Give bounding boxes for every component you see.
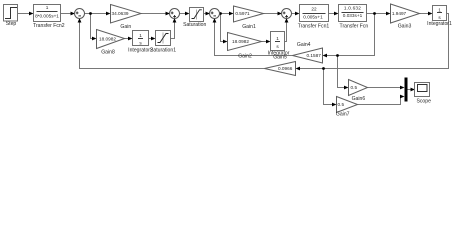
junction on Integrator1 feedback to Gain7 branch <box>322 67 325 70</box>
wire sum4 to tf1 <box>292 13 297 15</box>
svg-text:1.0.632: 1.0.632 <box>344 6 361 11</box>
transfer fcn block <box>339 5 369 30</box>
svg-text:Gain5: Gain5 <box>273 54 287 60</box>
arrowhead into Saturation1 <box>151 37 156 41</box>
svg-text:Integrator1: Integrator1 <box>427 21 452 27</box>
step block <box>4 5 18 28</box>
wire integrator2 to saturation1 <box>149 38 153 40</box>
svg-text:Gain2: Gain2 <box>238 53 252 59</box>
junction after Sum1 to Gain8 branch <box>89 12 92 15</box>
wire mux to scope <box>408 89 412 91</box>
arrowhead into Mux lower input <box>400 95 405 99</box>
sum3 <box>210 9 220 19</box>
svg-text:1.9497: 1.9497 <box>392 11 407 16</box>
gain block 34.0639 <box>111 5 142 31</box>
arrowhead into Gain <box>106 12 111 16</box>
integrator block <box>268 32 290 61</box>
wire gain to sum2 <box>141 13 167 15</box>
sum4 <box>282 9 292 19</box>
svg-text:18.0982: 18.0982 <box>232 39 249 44</box>
svg-text:Step: Step <box>6 21 17 27</box>
wire branch down to gain7 <box>324 69 334 105</box>
wire gain2 out to sum1 bottom <box>80 22 265 69</box>
gain7 block 0.5 <box>336 97 358 118</box>
svg-text:22: 22 <box>311 7 317 12</box>
integrator1 block <box>427 6 452 28</box>
wire saturation to sum3 <box>204 13 207 15</box>
wire gain4 to sum3 bottom <box>215 22 293 56</box>
integrator2 block <box>128 31 153 54</box>
saturation block <box>183 8 206 28</box>
arrowhead into Sum2 bottom <box>173 18 177 23</box>
svg-text:1: 1 <box>46 5 49 10</box>
svg-text:0.005s+1: 0.005s+1 <box>303 15 323 20</box>
arrowhead into Sum3 bottom <box>213 18 217 23</box>
svg-text:Gain: Gain <box>120 24 131 30</box>
arrowhead into Gain8 <box>92 37 97 41</box>
svg-text:8*0.005s+1: 8*0.005s+1 <box>35 14 59 19</box>
arrowhead into Transfer Fcn1 <box>295 12 300 16</box>
wire branch down to gain6 <box>338 56 346 88</box>
svg-text:1: 1 <box>438 7 441 12</box>
junction after Transfer Fcn to Gain4 branch <box>373 12 376 15</box>
svg-text:1: 1 <box>139 33 142 38</box>
gain3 block 1.9497 <box>391 4 420 29</box>
wire tap after tf down to gain4 <box>326 14 375 56</box>
wire gain5 to integrator <box>262 41 268 43</box>
svg-text:Transfer Fcn2: Transfer Fcn2 <box>33 23 65 29</box>
gain5 block 18.0982 <box>228 33 262 51</box>
arrowhead into Gain4 (left pointing) <box>323 54 328 58</box>
arrowhead into Scope <box>411 88 416 92</box>
wire branch down to gain5 <box>221 14 225 42</box>
wire sum2 to saturation <box>180 13 187 15</box>
arrowhead into Gain2 (left pointing) <box>296 67 301 71</box>
wire gain8 to integrator2 <box>125 38 130 40</box>
arrowhead into Integrator2 <box>128 37 133 41</box>
arrowhead into Integrator <box>266 40 271 44</box>
wire branch down to gain8 <box>91 14 94 39</box>
svg-text:Gain4: Gain4 <box>297 42 311 48</box>
sum2 <box>170 9 180 19</box>
sum1 <box>75 9 85 19</box>
arrowhead into Sum1 left <box>71 12 76 16</box>
svg-text:Transfer Fcn1: Transfer Fcn1 <box>298 23 330 29</box>
arrowhead into Sum4 bottom <box>285 18 289 23</box>
gain8 block 18.0982 <box>97 30 125 56</box>
wire integrator1 feedback down right side <box>299 14 449 69</box>
arrowhead into Gain5 <box>223 40 228 44</box>
arrowhead into Gain1 <box>229 12 234 16</box>
gain2 block 0.0966 (left pointing) <box>265 62 296 76</box>
svg-text:Saturation: Saturation <box>183 22 206 28</box>
scope block <box>415 83 432 105</box>
svg-text:0.1587: 0.1587 <box>307 53 322 58</box>
gain4 block 0.1587 (left pointing) <box>293 42 323 63</box>
arrowhead into Gain3 <box>386 12 391 16</box>
arrowhead into Integrator1 <box>428 12 433 16</box>
wire tf2 to sum1 <box>61 13 72 15</box>
wire sum1 to gain <box>85 13 108 15</box>
svg-text:0.033s+1: 0.033s+1 <box>343 13 363 18</box>
junction on Gain4 wire to Gain6 branch <box>336 54 339 57</box>
svg-text:1: 1 <box>276 36 279 41</box>
svg-text:18.0982: 18.0982 <box>99 37 116 42</box>
gain1 block 0.5971 <box>234 6 264 30</box>
svg-text:34.0639: 34.0639 <box>112 11 129 16</box>
saturation1 block <box>150 31 176 54</box>
svg-text:Saturation1: Saturation1 <box>150 48 176 54</box>
junction after Sum3 to Gain5 branch <box>219 12 222 15</box>
wire gain7 to mux <box>358 97 402 105</box>
svg-text:Scope: Scope <box>416 98 431 104</box>
svg-text:Gain1: Gain1 <box>242 24 256 30</box>
arrowhead into Sum1 bottom <box>78 18 82 23</box>
arrowhead into Transfer Fcn <box>334 12 339 16</box>
svg-text:Gain7: Gain7 <box>336 111 350 117</box>
wire gain6 to mux <box>368 87 402 89</box>
svg-text:Gain3: Gain3 <box>398 23 412 29</box>
mux <box>405 78 408 102</box>
svg-text:0.0966: 0.0966 <box>278 66 293 71</box>
wire sum3 to gain1 <box>220 13 231 15</box>
arrowhead into Sum4 left <box>278 12 283 16</box>
svg-text:0.5: 0.5 <box>351 85 358 90</box>
arrowhead into Sum3 left <box>206 12 211 16</box>
transfer fcn1 block <box>298 5 330 30</box>
svg-text:Gain8: Gain8 <box>101 50 115 56</box>
wire tf1 to tf <box>329 13 336 15</box>
arrowhead into Transfer Fcn2 <box>29 12 34 16</box>
svg-text:0.5: 0.5 <box>338 102 345 107</box>
wire saturation1 up to sum2 <box>171 22 175 39</box>
svg-text:Gain6: Gain6 <box>352 96 366 102</box>
wire tf to gain3 <box>367 13 388 15</box>
transfer fcn2 block <box>33 5 65 29</box>
arrowhead into Saturation <box>185 12 190 16</box>
gain6 block 0.5 <box>349 80 368 103</box>
svg-text:Transfer Fcn: Transfer Fcn <box>340 23 369 29</box>
wire step to tf2 <box>18 13 31 15</box>
arrowhead into Gain7 <box>332 103 337 107</box>
wire gain3 to integrator1 <box>420 13 430 15</box>
arrowhead into Mux upper input <box>400 86 405 90</box>
wire gain1 to sum4 <box>264 13 279 15</box>
svg-text:0.5971: 0.5971 <box>235 11 250 16</box>
arrowhead into Sum2 left <box>166 12 171 16</box>
wire integrator up to sum4 <box>285 22 287 42</box>
arrowhead into Gain6 <box>344 86 349 90</box>
